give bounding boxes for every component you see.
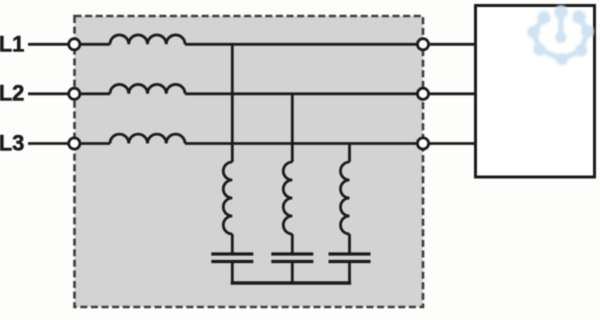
label L1 bbox=[0, 32, 24, 57]
wire star-point bus bbox=[231, 281, 351, 285]
wire shunt branch 1 drop bbox=[231, 44, 234, 162]
wire branch 1 coil to cap bbox=[231, 234, 234, 253]
wire L3 lead-in bbox=[28, 142, 69, 145]
label L3 bbox=[0, 130, 24, 155]
terminal input L3 bbox=[69, 138, 80, 149]
inductor shunt branch 1 bbox=[223, 162, 232, 234]
terminal input L1 bbox=[69, 39, 80, 50]
wire L3 to coil bbox=[80, 142, 110, 145]
svg-text:L1: L1 bbox=[0, 32, 24, 57]
label L2 bbox=[0, 81, 24, 106]
inductor series phase 3 bbox=[110, 134, 185, 143]
inductor shunt branch 3 bbox=[341, 162, 350, 234]
terminal output phase 2 bbox=[417, 88, 428, 99]
wire shunt branch 3 drop bbox=[348, 144, 351, 163]
wire L1 to drive bbox=[185, 43, 476, 46]
wire L1 to coil bbox=[80, 43, 110, 46]
wire branch 1 cap to bus bbox=[231, 263, 234, 283]
capacitor branch 1 bbox=[211, 254, 253, 262]
wire L2 to drive bbox=[185, 92, 476, 95]
terminal output phase 3 bbox=[417, 138, 428, 149]
capacitor branch 3 bbox=[329, 254, 371, 262]
wire L1 lead-in bbox=[28, 43, 69, 46]
terminal input L2 bbox=[69, 88, 80, 99]
wire L2 to coil bbox=[80, 92, 110, 95]
wire shunt branch 2 drop bbox=[291, 94, 294, 162]
wire branch 3 cap to bus bbox=[348, 263, 351, 283]
drive unit box U1 bbox=[476, 6, 595, 178]
wire branch 2 coil to cap bbox=[291, 234, 294, 253]
wire branch 3 coil to cap bbox=[348, 234, 351, 253]
capacitor branch 2 bbox=[271, 254, 313, 262]
filter enclosure (dashed gray box) bbox=[75, 16, 424, 307]
inductor shunt branch 2 bbox=[283, 162, 292, 234]
inductor series phase 1 bbox=[110, 35, 185, 44]
inductor series phase 2 bbox=[110, 84, 185, 93]
svg-text:L3: L3 bbox=[0, 130, 24, 155]
wire branch 2 cap to bus bbox=[291, 263, 294, 283]
watermark logo bbox=[527, 5, 594, 65]
svg-text:L2: L2 bbox=[0, 81, 24, 106]
wire L2 lead-in bbox=[28, 92, 69, 95]
terminal output phase 1 bbox=[417, 39, 428, 50]
wire L3 to drive bbox=[185, 142, 476, 145]
